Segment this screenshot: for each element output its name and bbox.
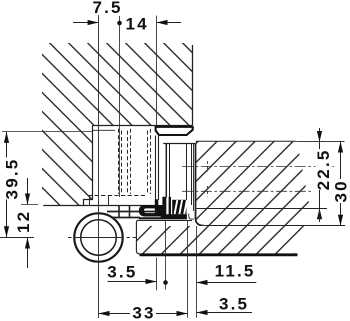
frame mortise wall <box>84 126 93 206</box>
dimension 3.5 bottom-right <box>197 295 253 315</box>
svg-text:30: 30 <box>332 179 350 202</box>
door rebate bottom line <box>204 225 345 227</box>
lower band left edge <box>136 220 139 254</box>
door rebate step line <box>197 208 328 210</box>
lower band top edge <box>139 220 192 222</box>
frame outline right edge <box>192 45 194 125</box>
door screw axis 2 dash-dot <box>182 190 311 192</box>
frame face line <box>43 205 157 207</box>
door face extension line bottom with dot <box>165 221 167 290</box>
svg-text:33: 33 <box>132 304 155 321</box>
frame part web double line <box>155 136 157 201</box>
svg-text:3.5: 3.5 <box>107 263 137 282</box>
svg-text:7.5: 7.5 <box>92 0 122 17</box>
frame part web lower end <box>155 199 159 213</box>
hinge leaf face plate <box>165 144 167 198</box>
door top face <box>163 141 296 143</box>
leaf bottom black bar <box>139 214 187 219</box>
screw hole A dashed lines <box>119 129 131 194</box>
drill depth mark 2 <box>207 186 209 197</box>
knuckle link bar <box>107 211 157 213</box>
dimension 3.5 bottom-left <box>107 263 156 284</box>
knuckle inner circle <box>81 220 117 256</box>
door body hatch <box>196 142 311 226</box>
lower band hatch <box>136 226 304 255</box>
svg-text:39.5: 39.5 <box>3 158 22 200</box>
dimension 7.5 <box>73 0 123 25</box>
dimension 33 <box>99 304 188 321</box>
knuckle outer circle <box>74 213 122 261</box>
frame bottom edge <box>93 125 193 127</box>
frame section hatch <box>42 43 193 206</box>
leaf bend C-section <box>139 205 163 217</box>
door mortise right wall with corner <box>195 144 203 226</box>
hinge leaf mortise plate <box>186 144 188 205</box>
screw axis centerline with dot <box>119 16 121 197</box>
inner corner detail <box>189 214 194 220</box>
svg-text:3.5: 3.5 <box>219 295 249 314</box>
svg-text:12: 12 <box>14 210 33 233</box>
screw hole B dashed lines <box>148 129 151 194</box>
leaf lower posts <box>162 197 166 218</box>
hinge axis horizontal centerline left <box>0 237 34 239</box>
dimension 11.5 <box>197 262 257 285</box>
lower band thick bottom edge <box>140 253 298 256</box>
svg-text:22.5: 22.5 <box>314 148 333 190</box>
dimension 12 <box>14 178 38 268</box>
frame part cover cap <box>156 127 193 135</box>
svg-text:11.5: 11.5 <box>215 262 256 281</box>
dimension 39.5 <box>2 132 93 238</box>
rebate face extension line top <box>156 16 158 126</box>
pocket depth line <box>93 129 116 131</box>
dimension 22.5 <box>314 128 333 222</box>
door screw axis 1 dash-dot <box>182 166 334 168</box>
door top face extension <box>296 140 345 142</box>
screw symbol strokes <box>172 200 186 215</box>
pin gap ticks <box>89 197 91 206</box>
rebate face extension line bottom <box>156 258 158 291</box>
hinge axis horizontal centerline through knuckle <box>74 237 123 239</box>
drill depth mark 1 <box>207 161 209 172</box>
flap hidden bottom dashed <box>88 195 146 197</box>
rebate face extension line <box>196 226 198 318</box>
hinge axis vertical centerline <box>98 15 100 318</box>
dimension 14 <box>125 15 181 34</box>
leaf face extension line <box>187 220 189 317</box>
svg-text:14: 14 <box>125 15 148 34</box>
dimension 30 <box>332 142 350 226</box>
